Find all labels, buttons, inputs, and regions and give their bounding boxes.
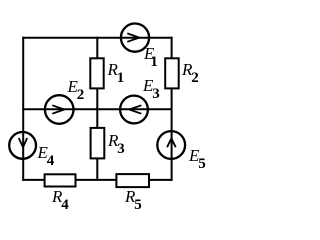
wire right [171,37,173,181]
label E3 [143,77,160,95]
label E5 [189,147,206,165]
source E2 [45,95,74,124]
wire top [22,37,172,39]
label E4 [38,144,55,162]
resistor R2 [165,58,179,88]
resistor R1 [90,58,103,88]
wire middle [22,108,172,110]
label E1 [144,45,158,63]
wire bottom [22,179,172,181]
label E2 [68,78,85,96]
label R2 [182,61,199,79]
wire left [22,37,24,181]
label R1 [108,61,125,79]
source E1 [121,23,149,51]
resistor R4 [45,174,76,186]
source E4 [9,132,36,159]
resistor R5 [116,174,149,187]
source E5 [157,131,185,159]
label R4 [52,188,69,206]
wire center vertical [96,37,98,181]
label R5 [125,188,142,206]
label R3 [108,132,125,150]
source E3 [120,96,148,124]
resistor R3 [91,128,105,158]
